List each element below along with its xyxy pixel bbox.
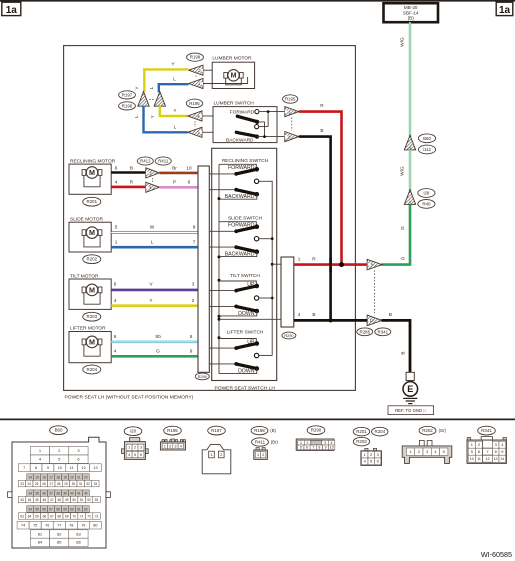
connector pinout i28 — [122, 427, 149, 460]
svg-text:4: 4 — [180, 444, 182, 448]
svg-text:4: 4 — [331, 441, 333, 445]
connector label R290 right — [282, 332, 296, 339]
svg-text:R202: R202 — [422, 428, 433, 433]
svg-text:L: L — [174, 124, 177, 129]
svg-text:R40: R40 — [422, 201, 431, 206]
svg-text:8: 8 — [35, 466, 37, 470]
wire Y to lumber switch pin 4 — [150, 106, 187, 118]
lumber motor connector triangle pin 1 — [189, 77, 248, 89]
forward resting contact link — [219, 222, 256, 227]
lifter motor box — [69, 325, 111, 362]
ground E symbol — [403, 382, 418, 404]
svg-text:R285: R285 — [360, 329, 371, 334]
svg-text:5: 5 — [370, 459, 372, 464]
connector label R197 — [119, 91, 136, 99]
svg-text:40: 40 — [70, 491, 74, 495]
feed line to forward lever — [209, 230, 236, 232]
connector label R195 right — [283, 95, 298, 103]
svg-text:G: G — [156, 348, 160, 353]
svg-text:47: 47 — [50, 498, 54, 502]
svg-text:82: 82 — [57, 531, 62, 536]
svg-text:1: 1 — [115, 240, 118, 245]
connector pinout R195 — [160, 426, 185, 450]
svg-text:1: 1 — [257, 453, 259, 457]
in-line connector triangle pin 17 — [367, 315, 382, 326]
svg-text:L: L — [134, 115, 139, 118]
svg-text:W: W — [150, 224, 155, 229]
svg-text:70: 70 — [72, 514, 76, 518]
svg-text:34: 34 — [28, 491, 32, 495]
wire L to lumber switch pin 3 — [134, 106, 188, 132]
svg-text:26: 26 — [42, 482, 46, 486]
down lever — [234, 305, 259, 317]
svg-text:2: 2 — [418, 449, 420, 454]
dashed link between R197/R196 triangles — [149, 98, 154, 100]
svg-text:2: 2 — [192, 298, 195, 303]
wire R reclining pin 4 — [111, 179, 146, 187]
svg-text:R204: R204 — [87, 367, 98, 372]
lifter switch moving contact — [254, 353, 272, 357]
lumber switch cross link — [257, 122, 264, 137]
svg-text:POWER SEAT LH (WITHOUT SEAT PO: POWER SEAT LH (WITHOUT SEAT POSITION MEM… — [65, 395, 194, 401]
dashed link between connector triangles 7 and 17 — [374, 270, 376, 315]
svg-text:6: 6 — [114, 334, 117, 339]
forward lever — [228, 165, 259, 176]
svg-text:R341: R341 — [481, 428, 492, 433]
svg-text:R195: R195 — [285, 97, 296, 102]
svg-text:E: E — [407, 384, 413, 394]
switch supply bus (to pin 1) — [271, 181, 274, 356]
svg-text:13: 13 — [494, 457, 498, 461]
connector pinout R290 — [296, 426, 335, 451]
up resting contact link — [219, 339, 256, 344]
backward resting contact link — [219, 194, 257, 199]
svg-text:1: 1 — [164, 444, 166, 448]
wire B from triangle 17 to ground — [382, 312, 411, 372]
svg-text:9: 9 — [190, 348, 193, 353]
wire W slide pin 5 to R290 pin 8 — [111, 224, 198, 232]
dashed link R195 output halves — [291, 117, 293, 130]
svg-text:8: 8 — [193, 224, 196, 229]
wire B from lumber switch down — [299, 128, 331, 320]
svg-text:6: 6 — [478, 449, 480, 454]
page tab 1a right — [496, 2, 513, 16]
svg-text:R203: R203 — [356, 439, 367, 444]
svg-text:1: 1 — [298, 256, 301, 261]
svg-text:27: 27 — [50, 482, 54, 486]
connector pinout R198 (B) / R411 (Br) — [251, 426, 278, 459]
outer box POWER SEAT LH — [64, 46, 356, 391]
feed line to down lever — [209, 363, 236, 365]
svg-text:Br: Br — [172, 165, 177, 170]
svg-text:74: 74 — [21, 524, 25, 528]
svg-text:L: L — [173, 76, 176, 81]
svg-text:31: 31 — [79, 482, 83, 486]
svg-text:3: 3 — [377, 452, 379, 457]
in-line connector i28/R40 (triangle) — [404, 190, 415, 205]
svg-text:2: 2 — [262, 453, 264, 457]
svg-text:69: 69 — [65, 514, 69, 518]
svg-text:7: 7 — [486, 449, 488, 454]
wire to R290 pin 4 — [219, 318, 281, 320]
svg-text:(Gr): (Gr) — [439, 428, 447, 433]
svg-text:B60: B60 — [423, 136, 431, 141]
power seat switch box — [212, 148, 277, 391]
svg-text:44: 44 — [28, 498, 32, 502]
svg-text:6: 6 — [377, 459, 379, 464]
svg-text:FORWARD: FORWARD — [230, 110, 255, 116]
svg-text:72: 72 — [87, 514, 91, 518]
connector pinout R202 (Gr) — [402, 426, 452, 463]
svg-text:62: 62 — [84, 507, 88, 511]
svg-text:79: 79 — [81, 524, 85, 528]
svg-text:LUMBER SWITCH: LUMBER SWITCH — [214, 100, 255, 106]
svg-text:29: 29 — [64, 482, 68, 486]
svg-text:36: 36 — [42, 491, 46, 495]
svg-text:2: 2 — [370, 452, 372, 457]
svg-text:43: 43 — [20, 498, 24, 502]
svg-text:10: 10 — [470, 457, 474, 461]
wire to R290 pin 1 — [272, 263, 281, 265]
connector label R201 — [83, 197, 101, 206]
top border line — [0, 0, 515, 2]
connector pinout R201/R204/R203 — [353, 427, 388, 465]
svg-text:25: 25 — [35, 482, 39, 486]
power source box MB-20 SBF-14 (B) — [384, 3, 439, 22]
svg-text:4: 4 — [409, 146, 411, 150]
wire W/G from SBF-14 down to connector B60/i112 — [400, 22, 410, 136]
svg-text:5: 5 — [115, 224, 118, 229]
lumber switch connector triangle pin 3 — [188, 127, 213, 137]
dashed link R412/R411 halves — [152, 178, 154, 182]
svg-text:48: 48 — [58, 498, 62, 502]
svg-text:Sb: Sb — [155, 334, 161, 339]
feed line to forward lever — [209, 173, 236, 175]
svg-text:B: B — [130, 165, 133, 170]
svg-text:38: 38 — [56, 491, 60, 495]
svg-text:54: 54 — [28, 507, 32, 511]
svg-text:2: 2 — [478, 442, 480, 447]
svg-text:84: 84 — [38, 540, 43, 545]
wire Y lumber motor pin2 — [135, 62, 189, 93]
svg-text:i112: i112 — [423, 147, 432, 152]
svg-text:73: 73 — [95, 514, 99, 518]
reclining switch moving contact — [254, 179, 272, 183]
lifter switch — [227, 329, 264, 335]
svg-text:9: 9 — [501, 449, 503, 454]
svg-text:76: 76 — [45, 524, 49, 528]
lumber switch forward lever — [236, 115, 260, 125]
svg-text:R197: R197 — [211, 428, 222, 433]
wire L slide pin 1 to R290 pin 7 — [111, 240, 198, 248]
svg-text:8: 8 — [495, 449, 497, 454]
page tab 1a left — [2, 2, 21, 16]
svg-text:49: 49 — [65, 498, 69, 502]
svg-text:7: 7 — [193, 240, 196, 245]
wire Sb lifter pin 6 to R290 pin 6 — [111, 334, 198, 342]
svg-text:65: 65 — [35, 514, 39, 518]
svg-text:86: 86 — [76, 540, 81, 545]
svg-text:52: 52 — [87, 498, 91, 502]
up lever — [234, 339, 259, 350]
svg-text:10: 10 — [330, 446, 334, 450]
reclining connector triangle pin 2 — [146, 168, 160, 178]
connector label i112 — [418, 145, 435, 154]
svg-text:20: 20 — [70, 475, 74, 479]
wire V tilt pin 6 to R290 pin 3 — [111, 281, 198, 290]
svg-text:R341: R341 — [378, 329, 389, 334]
svg-text:BACKWARD: BACKWARD — [226, 138, 254, 144]
connector pinout R197 — [202, 426, 231, 474]
connector label R285 — [357, 328, 373, 336]
lumber switch middle contact — [255, 112, 269, 129]
connector label R412 — [137, 157, 153, 165]
svg-text:W/G: W/G — [400, 37, 405, 47]
svg-text:9: 9 — [325, 446, 327, 450]
dashed link R198 halves — [195, 76, 197, 79]
svg-text:63: 63 — [20, 514, 24, 518]
up lever — [234, 282, 259, 293]
svg-text:42: 42 — [84, 491, 88, 495]
connector label R203 — [83, 312, 101, 321]
svg-text:32: 32 — [86, 482, 90, 486]
svg-text:81: 81 — [38, 531, 43, 536]
wire B reclining pin 6 — [111, 165, 146, 172]
svg-text:58: 58 — [56, 507, 60, 511]
in-line connector R197/R196 triangle right — [154, 92, 165, 107]
down resting contact link — [219, 311, 257, 316]
svg-text:66: 66 — [43, 514, 47, 518]
svg-text:(Br): (Br) — [271, 440, 279, 445]
svg-text:18: 18 — [56, 475, 60, 479]
svg-text:45: 45 — [35, 498, 39, 502]
svg-text:4: 4 — [114, 348, 117, 353]
svg-text:4: 4 — [115, 179, 118, 184]
dashed link R195 halves — [194, 121, 196, 127]
svg-text:24: 24 — [28, 482, 32, 486]
wire R from R290 pin 1 to triangle 7 — [294, 256, 368, 267]
svg-text:3: 3 — [174, 444, 176, 448]
svg-text:B: B — [400, 351, 405, 354]
svg-text:11: 11 — [477, 457, 481, 461]
svg-text:M: M — [89, 285, 95, 294]
svg-text:1: 1 — [210, 452, 212, 457]
svg-text:3: 3 — [192, 281, 195, 286]
svg-text:61: 61 — [77, 507, 81, 511]
forward resting contact link — [219, 164, 256, 169]
svg-text:85: 85 — [57, 540, 62, 545]
connector label R198 — [187, 53, 204, 61]
svg-text:B: B — [320, 128, 323, 133]
lumber switch output triangle pin 1 — [285, 107, 299, 117]
svg-text:R196: R196 — [122, 103, 133, 108]
svg-text:W/G: W/G — [400, 166, 405, 176]
svg-text:L: L — [149, 86, 154, 89]
svg-text:1: 1 — [364, 452, 366, 457]
svg-text:33: 33 — [94, 482, 98, 486]
svg-text:M: M — [89, 168, 95, 177]
svg-text:POWER SEAT SWITCH LH: POWER SEAT SWITCH LH — [215, 385, 276, 391]
connector label R40 — [418, 200, 435, 209]
connector pinout B60 — [8, 426, 111, 548]
backward resting contact link — [219, 252, 257, 257]
svg-text:R201: R201 — [87, 199, 98, 204]
svg-text:(B): (B) — [270, 428, 276, 433]
section divider line — [0, 418, 515, 420]
svg-text:4: 4 — [114, 298, 117, 303]
svg-text:64: 64 — [28, 514, 32, 518]
svg-text:1: 1 — [409, 200, 411, 204]
reclining motor M symbol — [82, 167, 102, 187]
svg-text:3: 3 — [426, 449, 428, 454]
wire W/G from B60/i112 down to connector i28/R40 — [400, 150, 410, 191]
svg-text:R195: R195 — [167, 428, 178, 433]
svg-text:R201: R201 — [356, 429, 367, 434]
in-line connector triangle pin 7 (R285/R341) — [367, 259, 382, 270]
backward lever — [225, 188, 259, 200]
svg-text:L: L — [151, 240, 154, 245]
wire B crossing over (lumber switch black vertical) — [329, 258, 332, 272]
svg-text:6: 6 — [140, 453, 142, 457]
svg-text:5: 5 — [443, 449, 445, 454]
svg-text:14: 14 — [28, 475, 32, 479]
wire B from R290 pin 4 to triangle 17 — [294, 312, 368, 323]
lumber switch backward lever — [226, 131, 285, 144]
svg-text:LIFTER SWITCH: LIFTER SWITCH — [227, 329, 264, 335]
svg-text:11: 11 — [70, 466, 74, 470]
connector label R204 — [83, 365, 101, 374]
svg-text:9: 9 — [47, 466, 49, 470]
svg-text:R290: R290 — [311, 428, 322, 433]
down lever — [234, 362, 259, 374]
svg-text:R411: R411 — [255, 440, 266, 445]
svg-text:53: 53 — [95, 498, 99, 502]
svg-text:12: 12 — [485, 456, 489, 461]
svg-text:(B): (B) — [408, 16, 415, 21]
svg-text:R411: R411 — [158, 159, 169, 164]
svg-text:10: 10 — [58, 466, 62, 470]
svg-text:14: 14 — [500, 457, 504, 461]
svg-text:2: 2 — [134, 446, 136, 450]
svg-text:4: 4 — [298, 312, 301, 317]
lumber motor box — [212, 56, 254, 89]
svg-text:R198: R198 — [190, 55, 201, 60]
svg-text:G: G — [401, 256, 405, 261]
svg-text:55: 55 — [35, 507, 39, 511]
svg-text:3: 3 — [495, 442, 497, 447]
svg-text:R204: R204 — [375, 429, 386, 434]
svg-text:5: 5 — [471, 449, 473, 454]
svg-text:B: B — [312, 312, 315, 317]
svg-text:RECLINING SWITCH: RECLINING SWITCH — [222, 158, 269, 164]
svg-text:B60: B60 — [55, 428, 63, 433]
svg-text:67: 67 — [50, 514, 54, 518]
svg-text:1: 1 — [300, 441, 302, 445]
svg-text:M: M — [231, 73, 237, 80]
svg-text:22: 22 — [84, 475, 88, 479]
svg-text:28: 28 — [57, 482, 61, 486]
svg-text:6: 6 — [190, 334, 193, 339]
feed line to backward lever — [209, 246, 236, 248]
svg-text:57: 57 — [49, 507, 53, 511]
svg-text:2: 2 — [169, 444, 171, 448]
svg-text:83: 83 — [76, 531, 81, 536]
svg-text:6: 6 — [115, 165, 118, 170]
svg-text:6: 6 — [114, 281, 117, 286]
svg-text:6: 6 — [306, 446, 308, 450]
svg-text:77: 77 — [57, 524, 61, 528]
svg-text:4: 4 — [128, 453, 130, 457]
svg-text:41: 41 — [77, 491, 81, 495]
svg-text:R195: R195 — [189, 101, 200, 106]
svg-text:1a: 1a — [6, 5, 18, 16]
in-line connector R197/R196 triangle left — [138, 92, 149, 107]
svg-text:59: 59 — [63, 507, 67, 511]
svg-text:1a: 1a — [499, 5, 511, 16]
slide motor M symbol — [82, 227, 102, 247]
svg-text:P: P — [173, 179, 176, 184]
svg-text:i28: i28 — [130, 429, 136, 434]
svg-text:TILT SWITCH: TILT SWITCH — [230, 273, 260, 279]
connector label R202 — [83, 255, 101, 264]
connector label R196 — [119, 102, 136, 110]
backward lever — [225, 245, 259, 257]
svg-text:51: 51 — [80, 498, 84, 502]
svg-text:19: 19 — [63, 475, 67, 479]
svg-text:3: 3 — [140, 446, 142, 450]
wire G horizontal into triangle 7 — [382, 256, 412, 264]
wire L lumber motor pin1 — [149, 76, 188, 92]
up resting contact link — [219, 281, 256, 286]
feed line to down lever — [209, 305, 236, 307]
wire R from lumber switch to junction — [299, 103, 342, 264]
tilt switch — [230, 273, 260, 279]
svg-text:1: 1 — [128, 446, 130, 450]
svg-text:21: 21 — [77, 475, 81, 479]
svg-text:LIFTER MOTOR: LIFTER MOTOR — [70, 325, 106, 331]
svg-text:7: 7 — [23, 466, 25, 470]
svg-text:5: 5 — [134, 453, 136, 457]
lumber switch connector triangle pin 4 — [188, 111, 213, 121]
svg-text:REF. TO GND □: REF. TO GND □ — [395, 408, 426, 413]
svg-text:1: 1 — [409, 449, 411, 454]
feed line to up lever — [209, 290, 236, 292]
svg-text:6: 6 — [188, 179, 191, 184]
wire P to R290 pin 6 — [159, 179, 198, 187]
feed line to up lever — [209, 347, 236, 349]
svg-text:39: 39 — [63, 491, 67, 495]
reclining motor box — [69, 159, 116, 195]
wire Br to R290 pin 10 — [159, 165, 198, 173]
lumber switch box — [213, 100, 277, 142]
svg-text:37: 37 — [49, 491, 53, 495]
connector R290 right bar — [281, 257, 294, 327]
connector label i28 — [418, 189, 435, 198]
connector R290 left bar — [198, 166, 209, 372]
ground terminal square — [406, 372, 414, 380]
svg-text:75: 75 — [33, 524, 37, 528]
svg-text:71: 71 — [80, 514, 84, 518]
svg-text:R412: R412 — [140, 159, 151, 164]
lumber switch output triangle pin 2 — [285, 132, 299, 142]
svg-text:78: 78 — [69, 524, 73, 528]
tilt motor box — [69, 273, 111, 309]
connector label B60 — [418, 134, 435, 143]
svg-text:5: 5 — [300, 446, 302, 450]
svg-text:2: 2 — [307, 441, 309, 445]
wire G vertical down to seat harness — [400, 204, 410, 265]
svg-text:LUMBER MOTOR: LUMBER MOTOR — [212, 56, 252, 62]
